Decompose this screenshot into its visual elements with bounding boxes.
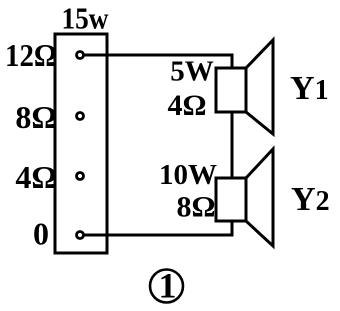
speaker Y1 driver [216,68,246,112]
svg-text:10W: 10W [159,159,217,191]
figure number circle 1 [150,270,183,303]
svg-text:Y1: Y1 [290,70,329,107]
svg-text:1: 1 [159,266,177,306]
svg-text:Y2: Y2 [291,181,330,218]
svg-text:0: 0 [33,216,49,252]
terminal 4Ω [77,173,84,180]
terminal 0 [77,232,84,239]
svg-text:4Ω: 4Ω [167,89,206,122]
svg-text:4Ω: 4Ω [15,159,57,195]
terminal 12Ω [77,52,84,59]
speaker Y2 driver [216,178,246,221]
svg-text:8Ω: 8Ω [15,99,57,135]
terminal 8Ω [77,113,84,120]
svg-text:15w: 15w [62,1,110,36]
wire: Y1 bottom to Y2 top [231,112,234,178]
wire: Y2 bottom to 0 terminal [84,221,232,235]
speaker Y1 cone [246,40,273,134]
speaker Y2 cone [246,149,273,246]
svg-text:12Ω: 12Ω [5,37,57,73]
terminal strip (matching box) [55,34,107,253]
wire: 12Ω terminal to Y1 top [84,55,232,68]
svg-text:8Ω: 8Ω [176,191,215,224]
svg-text:5W: 5W [170,56,214,88]
